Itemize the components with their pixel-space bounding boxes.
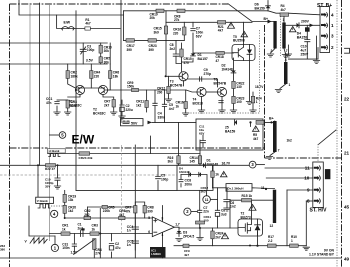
wire warn stub xyxy=(250,122,252,126)
transformer winding 2 xyxy=(282,18,285,49)
svg-text:100p: 100p xyxy=(87,48,95,52)
capacitor CC1 xyxy=(55,102,59,104)
svg-text:1n2: 1n2 xyxy=(230,205,236,209)
wire CR8 low xyxy=(144,213,146,218)
wire D3 hang xyxy=(178,228,180,237)
resistor CR12 200 xyxy=(157,86,170,94)
svg-text:22: 22 xyxy=(344,97,350,102)
capacitor C4a xyxy=(153,103,165,119)
ground T4 xyxy=(198,110,204,113)
svg-text:5: 5 xyxy=(148,216,150,220)
wire R24 riser xyxy=(249,61,251,102)
svg-text:1k: 1k xyxy=(215,173,219,177)
capacitor CC8 xyxy=(179,179,192,187)
ground D3 xyxy=(176,239,182,242)
transistor T2 MOSFET xyxy=(238,219,263,236)
svg-text:100n: 100n xyxy=(62,246,69,250)
wire dotted riser xyxy=(317,144,319,162)
wire caps gnd xyxy=(154,106,156,123)
svg-text:2k2: 2k2 xyxy=(84,213,90,217)
ground C6 xyxy=(224,208,230,211)
wire dashed mid xyxy=(0,174,177,176)
svg-text:200V: 200V xyxy=(301,20,310,24)
pin label 1b xyxy=(289,83,291,87)
wire drain riser xyxy=(251,200,253,219)
transistor T3 xyxy=(170,72,188,88)
label C11 xyxy=(199,125,205,136)
wire winding3 top xyxy=(285,54,287,63)
grid ref 21 xyxy=(344,151,350,156)
ground winding4 xyxy=(266,157,272,160)
ground R24 xyxy=(250,110,256,113)
resistor R15 1k xyxy=(242,194,253,202)
ground CR12 xyxy=(165,99,171,102)
wire CR2 column xyxy=(87,207,89,216)
resistor CR7b xyxy=(104,100,115,108)
resistor CR16 220 xyxy=(173,27,186,35)
node 3 xyxy=(249,161,256,168)
svg-text:7: 7 xyxy=(286,49,288,53)
wire pin2 riser xyxy=(317,48,319,60)
svg-text:11: 11 xyxy=(205,198,209,202)
border divider right xyxy=(265,157,342,159)
wire T6 emitter xyxy=(221,97,223,110)
resistor CR8 27k xyxy=(174,9,185,22)
svg-text:100: 100 xyxy=(236,100,242,104)
wire top feed xyxy=(19,0,124,15)
wire T4 emitter xyxy=(201,97,203,110)
wire C8b hang xyxy=(217,216,219,228)
svg-text:2k7: 2k7 xyxy=(104,103,110,107)
wire CR14 riser xyxy=(199,140,201,156)
wire C8a low xyxy=(176,56,182,63)
wire top bus 10 xyxy=(124,10,269,12)
svg-text:2u2: 2u2 xyxy=(78,226,84,230)
label 1k2 xyxy=(287,139,293,143)
wire C10 gnd rail xyxy=(288,58,318,60)
svg-text:E/W: E/W xyxy=(72,133,95,147)
wire rail 40 xyxy=(124,39,185,41)
label 1.5V xyxy=(71,250,78,254)
junction source xyxy=(256,245,258,247)
wire H blank row xyxy=(48,153,200,155)
svg-text:30k: 30k xyxy=(104,60,110,64)
wire rail 43 xyxy=(0,42,107,44)
wire circ5 stub xyxy=(50,134,60,136)
label 200V xyxy=(301,20,310,24)
resistor RC1 1k xyxy=(211,171,219,178)
svg-text:1: 1 xyxy=(291,239,293,243)
resistor CR3 xyxy=(66,100,77,108)
capacitor C5a xyxy=(162,103,174,111)
wire T3 col riser xyxy=(181,43,183,49)
arrowhead 200V xyxy=(310,24,314,28)
wire C2b gnd xyxy=(111,252,113,258)
diode D5 BA159 xyxy=(225,120,237,133)
potentiometer CR4 27k xyxy=(93,239,102,256)
wire CR15a hang xyxy=(165,22,167,26)
svg-text:30k: 30k xyxy=(104,49,110,53)
wire pin9 riser xyxy=(286,190,288,246)
wire source rail xyxy=(174,245,306,247)
svg-text:ZPD4.5: ZPD4.5 xyxy=(183,234,194,238)
svg-text:1: 1 xyxy=(331,23,334,28)
diode D4a xyxy=(189,172,191,176)
svg-text:2k7: 2k7 xyxy=(215,235,221,239)
wire emitter T1 xyxy=(68,95,80,97)
wire T3 col link xyxy=(182,58,194,62)
svg-text:BA159: BA159 xyxy=(255,6,265,10)
wire CR22 riser xyxy=(233,89,235,97)
wire bottom rail xyxy=(0,257,342,259)
wire C7a hang xyxy=(192,22,194,27)
wire C31 hang xyxy=(73,234,75,245)
capacitor C3 xyxy=(80,47,86,54)
wire out rail xyxy=(174,226,238,229)
svg-text:130: 130 xyxy=(236,85,242,89)
wire T3 emitter xyxy=(183,81,185,86)
wire vertical bus E xyxy=(134,145,136,258)
wire R16 riser xyxy=(178,122,180,155)
wire B+ out xyxy=(263,121,275,122)
label C31 xyxy=(62,242,69,250)
wire CR2 low xyxy=(68,78,76,88)
wire C3 low xyxy=(82,52,84,65)
wire CC8 xyxy=(180,175,182,180)
wire CR11 low xyxy=(199,224,201,228)
wire bar2 top xyxy=(283,13,285,22)
ground winding1 xyxy=(267,54,273,57)
wire C6 low xyxy=(226,202,228,208)
wire mystery riser xyxy=(150,136,152,154)
resistor CR11 100 xyxy=(196,215,212,224)
wire opamp in1 xyxy=(65,217,153,219)
capacitor C8a xyxy=(173,54,179,56)
wire mid rail 92 xyxy=(108,89,186,91)
wire D1 riser xyxy=(192,34,194,53)
svg-text:2n2: 2n2 xyxy=(170,47,176,51)
wire D6 top xyxy=(267,1,269,6)
svg-text:4k7: 4k7 xyxy=(119,213,125,217)
svg-text:R15 1k: R15 1k xyxy=(242,194,253,198)
svg-text:100: 100 xyxy=(204,218,209,222)
wire EW row xyxy=(57,15,120,29)
wire R4 rail xyxy=(268,11,280,13)
wire Dr1 out xyxy=(252,187,275,190)
resistor CR10 xyxy=(99,45,112,53)
svg-text:47k: 47k xyxy=(125,209,131,213)
warning triangle R5 xyxy=(253,126,260,131)
wire D6 bot xyxy=(267,8,269,11)
svg-text:1: 1 xyxy=(256,100,258,104)
svg-text:13k: 13k xyxy=(68,198,74,202)
svg-text:CR23 33k: CR23 33k xyxy=(79,156,93,160)
svg-text:10: 10 xyxy=(304,176,310,181)
resistor CR2 2k2 xyxy=(84,209,91,220)
wire R24 stub xyxy=(252,92,254,96)
svg-text:B+: B+ xyxy=(264,17,268,21)
svg-text:BA158: BA158 xyxy=(297,35,307,39)
wire winding1 gnd xyxy=(271,49,276,54)
wire CR6 hang xyxy=(109,64,111,71)
junction dot c xyxy=(64,217,66,219)
label 3.5V xyxy=(86,58,94,62)
wire CR19 riser xyxy=(64,190,66,218)
wire CR12 low xyxy=(168,94,170,100)
wire blank riser xyxy=(37,165,39,197)
label 220k xyxy=(103,209,110,213)
wire C10 down xyxy=(306,42,308,59)
resistor R21 xyxy=(218,21,226,33)
wire CR4 hang xyxy=(90,64,92,71)
svg-text:63V: 63V xyxy=(196,34,203,38)
svg-text:1,7: 1,7 xyxy=(175,223,180,227)
waveform V saw xyxy=(25,238,48,244)
diode D6 BA159 xyxy=(255,3,271,11)
svg-text:4k7: 4k7 xyxy=(281,8,287,12)
wire CC8 low xyxy=(180,184,182,187)
svg-text:7: 7 xyxy=(278,149,280,153)
wire CR14 low xyxy=(199,164,201,166)
wire pot low xyxy=(93,249,95,258)
label E/W big xyxy=(72,133,95,147)
svg-text:220: 220 xyxy=(173,31,179,35)
wire body diode xyxy=(257,232,259,246)
wire trim stub xyxy=(210,198,217,200)
wire pin8 riser xyxy=(305,201,307,246)
resistor R1 xyxy=(85,18,91,30)
junction dot D5 xyxy=(249,121,251,123)
border divider mid xyxy=(10,147,265,149)
resistor CF9a xyxy=(183,244,189,247)
diode D1 1N4148 xyxy=(203,159,218,168)
label CC1 xyxy=(46,97,53,105)
wire C31 low xyxy=(73,246,75,252)
wire R4 out xyxy=(289,13,320,15)
warning triangle R21 xyxy=(228,23,235,29)
junction dot d xyxy=(99,233,101,235)
svg-text:2: 2 xyxy=(331,45,334,50)
wire vertical bus A xyxy=(29,3,31,165)
svg-text:1k2: 1k2 xyxy=(136,103,142,107)
zener D3 ZPD4.5 xyxy=(177,231,195,239)
svg-text:H blank: H blank xyxy=(49,149,60,153)
wire fb rail xyxy=(88,206,136,208)
svg-text:12: 12 xyxy=(270,224,274,228)
svg-text:470: 470 xyxy=(184,61,190,65)
wire mid riser xyxy=(109,43,111,64)
ground CR3 xyxy=(65,112,71,115)
label CF9 xyxy=(184,249,190,257)
wire pin3 riser xyxy=(316,36,318,60)
wire pin10 row xyxy=(266,177,313,179)
svg-text:49: 49 xyxy=(344,257,350,262)
wire circ1 stub xyxy=(54,236,56,244)
wire CC4 low xyxy=(134,229,136,233)
wire emitter T2 xyxy=(103,95,114,99)
wire CR24 gnd xyxy=(212,239,214,246)
capacitor C1 2u2 xyxy=(78,223,85,237)
svg-text:1k: 1k xyxy=(92,227,96,231)
wire R9 down xyxy=(306,32,308,40)
wire vertical bus C xyxy=(49,3,51,241)
wire C10b low xyxy=(57,180,59,186)
wire CR13 low xyxy=(185,109,187,114)
border frame left xyxy=(9,4,11,267)
svg-text:B+: B+ xyxy=(269,117,274,121)
wire Dr1 feed xyxy=(213,187,227,189)
resistor CR18 47 xyxy=(216,51,225,62)
wire CR15a low xyxy=(165,34,167,40)
resistor CR22 130 xyxy=(232,81,245,89)
wire opamp gnd xyxy=(162,233,164,259)
ground winding3 xyxy=(275,90,281,93)
wire T5 col riser xyxy=(243,22,245,44)
svg-text:BC547B: BC547B xyxy=(214,81,227,85)
capacitor C11 xyxy=(201,141,206,143)
trimmer node 11 xyxy=(203,196,211,204)
svg-text:145: 145 xyxy=(190,160,196,164)
svg-text:180k: 180k xyxy=(71,74,78,78)
label 16.7V xyxy=(222,162,231,166)
wire C2a hang xyxy=(121,100,123,104)
box H blank xyxy=(48,149,66,153)
svg-text:6: 6 xyxy=(148,230,150,234)
wire circ3 stub xyxy=(256,164,265,166)
diode D1 BA157 xyxy=(191,53,208,61)
grid ref 49 xyxy=(344,257,350,262)
wire R15 rail xyxy=(230,199,273,201)
junction dot T3 xyxy=(165,75,167,77)
svg-text:4k7: 4k7 xyxy=(253,137,259,141)
resistor R5 xyxy=(256,120,264,124)
net label 50V box xyxy=(121,119,144,126)
svg-text:BA159: BA159 xyxy=(225,129,235,133)
svg-text:1n: 1n xyxy=(127,243,131,247)
wire CR12 hang xyxy=(168,76,170,86)
wire diagonal corner xyxy=(319,130,336,144)
ground CC1 xyxy=(54,112,60,115)
svg-text:BC547B: BC547B xyxy=(170,84,183,88)
svg-text:4: 4 xyxy=(162,233,164,237)
wire pin11 row xyxy=(265,167,313,169)
svg-text:1N4148: 1N4148 xyxy=(222,67,233,71)
wire gate gnd stub xyxy=(199,228,201,237)
svg-text:250V: 250V xyxy=(301,52,310,56)
svg-text:4: 4 xyxy=(331,13,334,18)
wire CR11a hang xyxy=(146,90,148,101)
resistor CR15 3k9 xyxy=(154,26,168,34)
svg-text:R22 47: R22 47 xyxy=(45,167,55,171)
ground C2a xyxy=(119,116,125,119)
resistor CR23 390 xyxy=(148,39,157,52)
svg-text:47: 47 xyxy=(216,59,220,63)
svg-text:4k7: 4k7 xyxy=(218,29,224,33)
wire C5b low xyxy=(157,181,159,191)
wire C7a low xyxy=(192,33,194,34)
transistor T2 xyxy=(93,85,108,115)
svg-text:4k7: 4k7 xyxy=(85,22,91,26)
svg-text:390: 390 xyxy=(147,209,153,213)
op-amp IC1 xyxy=(148,216,180,237)
resistor CR15 470 xyxy=(180,49,192,65)
capacitor C8 3u3 xyxy=(215,209,226,217)
resistor CR3b 1k xyxy=(90,224,99,236)
grid tick bracket xyxy=(345,48,350,53)
svg-text:22n: 22n xyxy=(203,210,209,214)
svg-text:3k3: 3k3 xyxy=(71,104,77,108)
ground CR23 xyxy=(230,110,236,113)
label R5 xyxy=(253,133,259,141)
pin label 7 xyxy=(286,49,288,53)
border frame right xyxy=(341,0,343,267)
ground small xyxy=(285,54,291,57)
svg-text:200: 200 xyxy=(157,90,163,94)
wire gate stub xyxy=(229,200,231,228)
wire CC1 gnd xyxy=(56,106,58,112)
wire yoke 1 xyxy=(0,164,249,166)
wire CR7 top xyxy=(135,202,144,206)
junction dot 11 xyxy=(265,188,267,190)
capacitor C7a xyxy=(191,27,204,39)
pin label 7b xyxy=(278,149,280,153)
capacitor C7 22n xyxy=(198,206,209,214)
wire CR23 gnd xyxy=(233,104,235,111)
transformer winding 5 xyxy=(270,190,277,228)
ground CR7b xyxy=(111,112,117,115)
resistor CR23 100 xyxy=(232,96,245,104)
capacitor C2 47u xyxy=(109,242,120,250)
warning triangle R15 xyxy=(249,205,256,211)
resistor CR19 20k xyxy=(150,9,165,20)
wire C2b hang xyxy=(111,234,113,242)
wire CR18 rail xyxy=(193,52,234,54)
junction dot B+ xyxy=(270,121,272,123)
wire T4 base xyxy=(186,90,197,92)
wire CR13 hang xyxy=(185,90,187,102)
label H blank xyxy=(49,149,60,153)
capacitor CC4 1n xyxy=(127,225,139,233)
wire vertical bus D xyxy=(120,0,122,122)
label D4b xyxy=(179,167,190,175)
wire yoke 2 xyxy=(76,189,177,191)
wire CR3 gnd xyxy=(67,108,69,112)
svg-text:4n7: 4n7 xyxy=(169,107,175,111)
connector ST B+ xyxy=(320,7,334,53)
warning triangle T5 xyxy=(241,32,248,37)
svg-text:E/W: E/W xyxy=(64,21,71,25)
svg-text:BA157: BA157 xyxy=(198,57,208,61)
svg-text:220k: 220k xyxy=(103,209,110,213)
wire opamp out xyxy=(162,206,164,222)
wire CR16a hang xyxy=(183,22,185,27)
resistor CR2 xyxy=(66,71,78,79)
resistor R17 2.2 xyxy=(268,235,277,247)
svg-text:8: 8 xyxy=(307,199,310,204)
label 16.7V b xyxy=(255,85,264,89)
diode D4b xyxy=(199,172,201,176)
svg-text:16.7V: 16.7V xyxy=(222,162,231,166)
node 1 xyxy=(51,244,58,251)
wire C4a hang xyxy=(154,90,156,103)
wire CR7b gnd xyxy=(113,107,115,112)
warning triangle D4 xyxy=(290,27,297,32)
capacitor C9 270p xyxy=(200,68,212,81)
resistor CR23 33k xyxy=(79,152,93,160)
wire base T1 xyxy=(75,11,77,90)
capacitor C10 4u7 xyxy=(301,40,310,57)
capacitor C5 100p xyxy=(156,177,161,179)
